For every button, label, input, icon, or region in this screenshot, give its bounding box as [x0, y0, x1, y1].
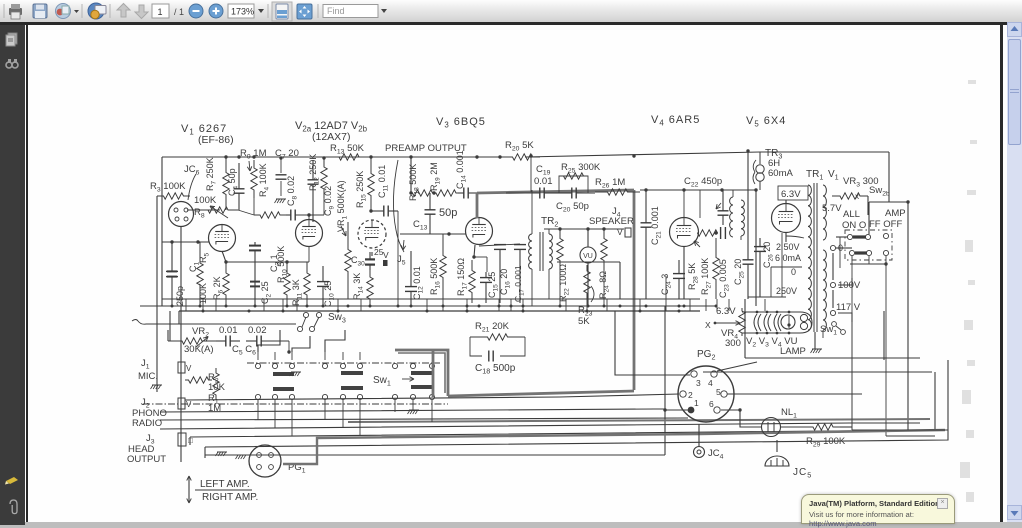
heater loop wires	[742, 311, 800, 313]
connector JC4	[694, 447, 705, 458]
svg-text:R17 150Ω: R17 150Ω	[456, 258, 469, 296]
svg-text:100K: 100K	[194, 195, 217, 206]
wire SW2 risers	[888, 152, 890, 202]
wire V1 connections	[180, 226, 182, 462]
svg-text:R6 2K: R6 2K	[212, 276, 225, 300]
heater box 6.3V	[778, 186, 808, 200]
svg-text:Sw3: Sw3	[328, 312, 346, 325]
svg-text:R16 500K: R16 500K	[429, 258, 442, 295]
wire fan left risers	[189, 437, 191, 445]
ground PG1 area	[217, 451, 227, 453]
svg-text:C17 0.001: C17 0.001	[513, 265, 526, 302]
coil end	[800, 314, 807, 321]
svg-text:RIGHT AMP.: RIGHT AMP.	[202, 492, 258, 503]
svg-text:3: 3	[696, 378, 701, 388]
svg-text:J1: J1	[141, 358, 150, 371]
wire PG2 pin leads	[727, 393, 862, 395]
svg-text:TR1: TR1	[806, 169, 823, 182]
sidebar	[0, 22, 25, 525]
svg-text:C13: C13	[413, 219, 428, 232]
sidebar top strip	[25, 22, 1007, 25]
wire ground rail 3	[179, 310, 700, 312]
wire cathode row V3	[474, 256, 487, 258]
tube V4	[670, 218, 699, 247]
sidebar icons	[0, 22, 25, 522]
thick wire to PG1	[283, 430, 945, 464]
wire selector row	[146, 323, 296, 325]
svg-text:JC4: JC4	[708, 448, 724, 461]
wire TR1 bottom taps	[822, 330, 824, 338]
svg-text:R9 1M: R9 1M	[240, 148, 267, 161]
svg-text:(12AX7): (12AX7)	[312, 131, 351, 143]
svg-text:VR2: VR2	[192, 326, 209, 339]
svg-text:C12 0.01: C12 0.01	[412, 266, 425, 300]
svg-text:V3 6BQ5: V3 6BQ5	[436, 116, 486, 130]
svg-text:x: x	[855, 192, 859, 201]
svg-text:R13 50K: R13 50K	[330, 143, 365, 156]
wire riser to PG2 pin 3	[615, 311, 690, 375]
svg-text:R27 100K: R27 100K	[700, 258, 713, 295]
svg-text:V: V	[383, 250, 389, 260]
wire SW1 upper stubs	[257, 352, 259, 360]
svg-text:SPEAKER: SPEAKER	[589, 216, 634, 227]
switch SW1 wafer	[247, 362, 440, 364]
svg-text:FF OFF: FF OFF	[869, 219, 902, 230]
tube V2a	[296, 220, 323, 247]
svg-text:C22 450p: C22 450p	[684, 176, 722, 189]
svg-text:R3 100K: R3 100K	[150, 181, 186, 194]
svg-text:OUTPUT: OUTPUT	[127, 454, 166, 465]
svg-text:1: 1	[694, 398, 699, 408]
toolbar	[0, 0, 1022, 23]
wire tube V1 legs	[222, 251, 226, 262]
wire speaker row	[544, 228, 624, 230]
svg-text:C9 0.02: C9 0.02	[323, 186, 336, 216]
svg-text:V5 6X4: V5 6X4	[746, 115, 786, 129]
page right border	[1000, 25, 1003, 522]
svg-text:6.3V: 6.3V	[781, 189, 801, 200]
svg-text:R7 250K: R7 250K	[205, 157, 218, 191]
resistor R20	[505, 154, 540, 160]
connector PG1	[249, 445, 281, 477]
svg-text:50p: 50p	[439, 207, 457, 219]
lamp NL1	[762, 418, 781, 437]
toolbar icons svg	[0, 0, 1022, 22]
tube V1	[209, 225, 236, 252]
wire V2b legs	[371, 252, 373, 256]
wire 0V tap	[771, 266, 802, 268]
wire right risers	[755, 190, 757, 306]
svg-text:C7 20: C7 20	[275, 148, 299, 161]
svg-text:R28 5K: R28 5K	[687, 263, 700, 290]
wire columns to rails	[185, 299, 187, 311]
tube V3	[466, 218, 493, 245]
wire SW1 row2 left extension	[143, 403, 247, 405]
svg-text:V4 6AR5: V4 6AR5	[651, 114, 700, 128]
svg-text:R4 100K: R4 100K	[258, 163, 271, 197]
wire rail risers	[161, 157, 163, 306]
wire cathode row	[226, 261, 309, 263]
svg-text:V: V	[186, 400, 192, 409]
wire ground rail 2	[140, 305, 716, 307]
svg-text:VU: VU	[583, 253, 593, 260]
svg-text:4: 4	[708, 378, 713, 388]
wire grid row	[410, 157, 412, 193]
wire V1 input row	[162, 241, 209, 243]
svg-text:LEFT AMP.: LEFT AMP.	[200, 479, 250, 490]
wire speaker bus	[557, 261, 620, 263]
svg-text:LAMP: LAMP	[780, 346, 806, 357]
svg-text:2 50V: 2 50V	[776, 242, 800, 252]
secondary taps	[830, 245, 835, 250]
pot VR4	[739, 308, 745, 336]
svg-text:C8 0.02: C8 0.02	[286, 176, 299, 206]
svg-text:C20 50p: C20 50p	[556, 201, 589, 214]
svg-text:R26 1M: R26 1M	[595, 177, 625, 190]
svg-text:C23 0.005: C23 0.005	[718, 259, 731, 298]
wire J2 to PG2 pin 2	[185, 394, 679, 400]
svg-text:JC5: JC5	[793, 467, 812, 480]
svg-text:C25 20: C25 20	[733, 259, 746, 285]
svg-text:6.3V: 6.3V	[716, 306, 736, 317]
svg-text:PG2: PG2	[697, 349, 715, 362]
svg-text:6 0mA: 6 0mA	[775, 253, 801, 263]
svg-text:V: V	[186, 364, 192, 373]
svg-text:C26 20: C26 20	[762, 242, 775, 268]
svg-text:C5 C6: C5 C6	[232, 344, 256, 357]
label right side connections	[852, 429, 948, 431]
svg-text:250V: 250V	[776, 286, 797, 296]
svg-text:60mA: 60mA	[768, 168, 793, 179]
wire V4 to TR coils	[699, 190, 701, 218]
svg-text:X: X	[705, 320, 711, 330]
svg-text:R12 250K: R12 250K	[308, 154, 321, 191]
svg-text:C30: C30	[351, 255, 365, 268]
tube V2b	[358, 220, 386, 248]
svg-text:5K: 5K	[578, 316, 590, 327]
svg-text:C10 25: C10 25	[323, 281, 336, 307]
svg-text:V: V	[617, 227, 623, 237]
wire interconnect fan	[160, 409, 665, 412]
svg-text:R15 250K: R15 250K	[355, 171, 368, 208]
potentiometer R8	[198, 207, 238, 213]
svg-text:0.01: 0.01	[534, 176, 553, 187]
svg-text:C2 25: C2 25	[260, 281, 273, 304]
svg-text:(EF-86): (EF-86)	[198, 134, 234, 146]
tube V5	[772, 204, 801, 233]
svg-text:0.01: 0.01	[219, 325, 238, 336]
wire ground rail 1	[162, 298, 700, 300]
svg-text:MIC.: MIC.	[138, 371, 158, 382]
page left border	[26, 25, 28, 522]
faint page smudges right	[940, 22, 1000, 522]
svg-text:R14 3K: R14 3K	[352, 273, 365, 300]
svg-text:C16 20: C16 20	[499, 269, 512, 295]
wire mains drops	[851, 322, 853, 430]
wire curve to J5	[393, 160, 404, 252]
svg-text:Sw2b: Sw2b	[869, 185, 890, 198]
lamp VU	[781, 315, 795, 329]
svg-text:C21 0.001: C21 0.001	[650, 206, 663, 245]
wire SW1 contact drops	[257, 400, 259, 420]
wire top B+ rail	[162, 156, 509, 158]
svg-text:30K(A): 30K(A)	[184, 344, 214, 355]
svg-text:R29 100K: R29 100K	[806, 436, 846, 449]
svg-text:117 V: 117 V	[836, 302, 861, 313]
svg-text:C14 0.001: C14 0.001	[455, 150, 468, 189]
connector PG2	[678, 366, 734, 422]
svg-text:300: 300	[725, 338, 741, 349]
svg-text:5: 5	[716, 387, 721, 397]
wire V5 cathode	[781, 233, 783, 297]
svg-text:0: 0	[791, 267, 796, 277]
svg-text:5.7V: 5.7V	[822, 203, 842, 214]
svg-text:NL1: NL1	[781, 407, 797, 420]
svg-text:6: 6	[709, 399, 714, 409]
wire V1 grid rows	[187, 209, 220, 211]
wire plate row	[640, 189, 756, 191]
ground SW1	[409, 409, 419, 411]
resistor R29	[806, 424, 840, 430]
connector JC5	[765, 456, 789, 466]
svg-text:ON O: ON O	[842, 220, 866, 231]
svg-text:1M: 1M	[208, 403, 221, 414]
meter VU	[580, 247, 596, 263]
output transformer secondary coils	[730, 197, 733, 237]
wire PG2 pin4 stub	[717, 362, 757, 371]
svg-text:TR2: TR2	[541, 216, 558, 229]
svg-text:RADIO: RADIO	[132, 418, 162, 429]
java popup	[801, 494, 955, 524]
thick wire preamp output	[477, 190, 634, 193]
svg-text:2: 2	[688, 390, 693, 400]
svg-text:R20 5K: R20 5K	[505, 140, 534, 153]
svg-text:R25 300K: R25 300K	[561, 162, 601, 175]
wire R20 drop	[530, 155, 532, 192]
svg-text:C15 25: C15 25	[487, 272, 500, 298]
thick wire SW1 border	[395, 350, 448, 396]
svg-text:VR1 500K(A): VR1 500K(A)	[336, 180, 349, 232]
wire TR3 riser	[747, 151, 749, 240]
svg-text:AMP: AMP	[885, 208, 906, 219]
svg-text:C4 50p: C4 50p	[227, 168, 240, 196]
wire riser left of PG2	[664, 306, 666, 455]
svg-text:0.02: 0.02	[248, 325, 267, 336]
svg-text:V1: V1	[828, 169, 839, 182]
svg-text:JC6: JC6	[184, 164, 200, 177]
resistor R28 pot	[697, 230, 718, 236]
svg-text:C18 500p: C18 500p	[475, 363, 516, 376]
svg-text:ALL: ALL	[843, 209, 860, 220]
wire NL1 loop	[721, 410, 761, 427]
svg-text:R19 2M: R19 2M	[429, 162, 442, 191]
svg-text:R8: R8	[194, 207, 205, 220]
svg-text:R21 20K: R21 20K	[475, 321, 510, 334]
svg-text:Sw1: Sw1	[373, 375, 391, 388]
svg-text:C19: C19	[536, 164, 551, 177]
svg-text:C11 0.01: C11 0.01	[377, 165, 390, 198]
svg-text:250p: 250p	[175, 286, 185, 306]
scrollbar	[1007, 22, 1022, 522]
